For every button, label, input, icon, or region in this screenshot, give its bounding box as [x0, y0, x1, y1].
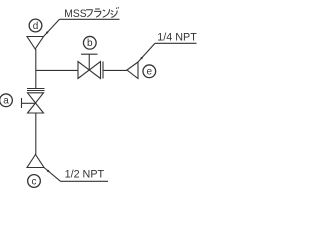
- svg-text:c: c: [32, 176, 37, 187]
- svg-text:1/2 NPT: 1/2 NPT: [65, 169, 105, 181]
- svg-text:e: e: [147, 67, 153, 78]
- svg-text:a: a: [3, 96, 9, 107]
- svg-text:d: d: [33, 21, 39, 32]
- svg-text:1/4 NPT: 1/4 NPT: [157, 32, 197, 44]
- svg-text:MSS: MSS: [64, 8, 86, 20]
- svg-text:b: b: [87, 38, 93, 49]
